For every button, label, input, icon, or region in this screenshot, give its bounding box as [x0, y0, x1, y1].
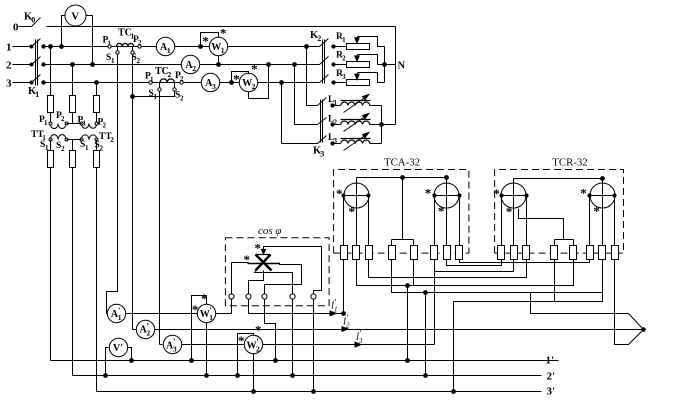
terminal 3 of cos phi [262, 294, 267, 299]
label P2 of TC2 [175, 71, 184, 83]
node 1 (phase 1 label) [6, 41, 12, 53]
switch K3 pole 1 [307, 98, 335, 108]
wire V right lead [86, 16, 95, 67]
label L3 [328, 133, 337, 145]
label L2 [328, 114, 337, 126]
wire I3 riser to TCR-R2 [435, 260, 514, 272]
cos phi box [225, 238, 329, 306]
resistor TCA-R3 [366, 246, 373, 260]
switch K1 pole 1 [13, 39, 46, 49]
svg-text:2': 2' [547, 371, 556, 383]
svg-text:*: * [201, 291, 208, 306]
svg-text:cos φ: cos φ [258, 225, 282, 237]
svg-text:2: 2 [61, 115, 65, 123]
svg-text:1: 1 [118, 313, 122, 322]
wire W1p to line 2-prime [205, 323, 209, 378]
current transformer TC2 [149, 79, 183, 91]
wattmeter W1 polarity stars [202, 25, 226, 48]
transformer TT2 primary [80, 122, 98, 128]
svg-text:2: 2 [168, 70, 172, 79]
switch K3 linkage [321, 100, 323, 143]
svg-text:1: 1 [111, 57, 115, 65]
wire PF left to terminal 1 [232, 263, 249, 295]
TCR element 1 stars [493, 186, 512, 219]
wire TCA top bus [357, 176, 449, 184]
svg-text:*: * [493, 186, 500, 201]
svg-text:*: * [192, 302, 199, 317]
wire line 2-prime feed [424, 293, 428, 378]
switch K2 pole 1 [320, 39, 336, 49]
ammeter A3-prime [163, 335, 181, 353]
wire line 3-prime [97, 391, 542, 393]
svg-text:*: * [336, 186, 343, 201]
svg-text:2: 2 [146, 329, 150, 338]
wire inductor common bus [380, 106, 396, 144]
node 2 (phase 2 label) [6, 60, 12, 72]
terminal 1 of cos phi [229, 294, 234, 299]
wire TCA-R2 to TCR-R5 [357, 260, 574, 288]
TCR element 2 stars [580, 185, 600, 218]
wattmeter W1 [209, 37, 227, 55]
label P1 of TC2 [145, 72, 154, 84]
terminal 4 of cos phi [290, 294, 295, 299]
label P2 of TC1 [133, 35, 142, 47]
resistor TCR-R7 [599, 246, 606, 260]
svg-text:1: 1 [221, 46, 225, 55]
svg-text:*: * [244, 252, 251, 267]
wire TCA-R1 to line I1 [342, 260, 346, 316]
svg-text:2: 2 [256, 344, 260, 353]
terminal 2 of cos phi [246, 294, 251, 299]
node 3 (phase 3 label) [6, 78, 12, 90]
svg-text:V: V [71, 10, 79, 22]
wire line 2-prime [73, 375, 542, 377]
label P2 of TT1 [56, 111, 65, 123]
phase meter PF crossed coils [248, 255, 280, 271]
svg-text:W: W [200, 309, 210, 320]
svg-text:TCA-32: TCA-32 [384, 157, 420, 169]
voltmeter V [65, 5, 86, 26]
svg-text:*: * [506, 204, 513, 219]
wire terminal 4 to line 2-prime [291, 300, 295, 378]
label S1 of TT2 [80, 140, 89, 152]
switch K2 label [310, 30, 321, 43]
wire V left lead [60, 16, 65, 49]
svg-text:3: 3 [342, 73, 346, 81]
resistor TCR-R8 [612, 246, 619, 260]
switch K3 pole 3 [282, 136, 335, 146]
svg-text:*: * [255, 240, 262, 255]
fuse F3 (line 3 to TT2 P2) [94, 81, 100, 124]
switch K3 label [313, 146, 324, 159]
svg-text:2: 2 [180, 75, 184, 83]
TCR-32 box [495, 170, 624, 254]
resistor TCR-R5 [570, 246, 577, 260]
wire TCA-R3 to TCR-R3 [369, 260, 527, 278]
label S2 of TC1 [132, 53, 141, 65]
TCA-32 label [384, 157, 420, 169]
wire terminal 5 to line 3-prime [312, 300, 316, 394]
TCA element 2 stars [425, 185, 445, 218]
svg-text:1: 1 [44, 119, 48, 127]
label 1-prime [546, 354, 555, 366]
wire line 3 [44, 82, 320, 84]
switch K2 pole 2 [320, 57, 336, 67]
transformer TT1 primary [49, 122, 68, 129]
switch K1 pole 3 [13, 75, 46, 85]
resistor TCR-R4 [551, 246, 558, 260]
svg-text:*: * [438, 203, 445, 218]
wire TCR centre bracket [519, 209, 574, 246]
rheostat R2 [334, 55, 385, 68]
svg-text:*: * [593, 203, 600, 218]
svg-text:N: N [398, 60, 406, 71]
svg-text:*: * [348, 204, 355, 219]
inductor L1 [333, 93, 382, 113]
wire TC2-S1 down to A3p [160, 92, 163, 345]
switch K0 [19, 18, 41, 27]
wire Vp left lead [104, 348, 109, 378]
fuse F2 (line 2 to TT junction) [70, 63, 76, 124]
svg-text:0: 0 [13, 22, 19, 34]
resistor TCA-R5 [411, 246, 418, 260]
label P2 of TT2 [98, 118, 107, 130]
svg-text:1: 1 [35, 90, 39, 99]
wattmeter W1-prime voltage loop [190, 296, 207, 363]
wire terminal 3 to line 1-prime [265, 300, 278, 363]
label S1 of TT1 [40, 140, 49, 152]
wire secondary phase a down [50, 140, 52, 361]
wire W1p out to terminal 1 [216, 300, 232, 314]
wire TCA-R6 to line I3 [434, 260, 436, 345]
label TC1 [118, 28, 135, 41]
svg-text:*: * [255, 323, 262, 338]
wire W2 to line 2 [249, 63, 271, 99]
ammeter A1-prime [107, 304, 125, 322]
svg-text:TCR-32: TCR-32 [552, 157, 587, 169]
wire TC2-S2 return [133, 92, 175, 97]
label current I2-prime [342, 313, 350, 331]
resistor TCA-R7 [444, 246, 451, 260]
svg-text:*: * [202, 34, 209, 49]
label 2-prime [547, 371, 556, 383]
TCR meter element 2 [588, 183, 616, 246]
svg-text:2: 2 [180, 95, 184, 103]
svg-text:1: 1 [83, 120, 87, 128]
ammeter A1 [156, 37, 174, 55]
resistor TCA-R2 [353, 246, 360, 260]
wire TCA centre bracket [392, 178, 414, 246]
wire line 0 [47, 26, 396, 28]
svg-text:3: 3 [173, 344, 177, 353]
TCA element 1 stars [336, 186, 355, 219]
label P1 of TT1 [39, 115, 48, 127]
wire rheostat common bus [383, 47, 396, 83]
svg-text:*: * [233, 72, 240, 87]
ammeter A2-prime [136, 320, 154, 338]
resistor TCA-R8 [456, 246, 463, 260]
label R3 [336, 69, 346, 81]
fuse F4 (TT1 S1) [48, 151, 54, 168]
label S2 of TT2 [95, 141, 104, 153]
svg-text:2: 2 [110, 136, 114, 144]
wire TC1-S1 to A1p [107, 55, 118, 314]
wire W2p to line 3-prime [252, 354, 256, 394]
switch K1 pole 2 [13, 57, 46, 67]
wire TC1-S2 down to A2p [131, 55, 137, 330]
resistor TCR-R1 [498, 246, 505, 260]
wire terminal 2 to line I1 [249, 300, 344, 314]
svg-text:1': 1' [546, 354, 555, 366]
svg-text:3': 3' [547, 385, 556, 397]
TCA-32 box [334, 170, 469, 254]
svg-text:3: 3 [6, 78, 12, 90]
wire secondary phase c down [96, 140, 98, 392]
switch K2 linkage [323, 40, 325, 84]
label S2 of TC2 [175, 91, 184, 103]
fuse F1 (line 1 to TT1 P1) [48, 45, 54, 124]
svg-text:2: 2 [317, 34, 321, 43]
inductor L3 [333, 131, 382, 151]
voltmeter V-prime [109, 338, 127, 356]
wire line 1-prime feed [406, 286, 410, 363]
svg-text:1: 1 [334, 306, 338, 314]
label L1 [328, 95, 337, 107]
svg-text:*: * [580, 185, 587, 200]
wire PF aux to terminal 4 [255, 270, 293, 295]
label S1 of TC1 [106, 53, 115, 65]
switch K0 label [24, 12, 35, 25]
svg-text:2: 2 [342, 55, 346, 63]
fuse F6 (TT2 S2) [94, 151, 100, 168]
svg-text:1: 1 [167, 46, 171, 55]
wire PF bottom to terminal 2 [249, 271, 264, 295]
svg-text:2: 2 [103, 122, 107, 130]
svg-text:2: 2 [100, 145, 104, 153]
label R2 [336, 51, 346, 63]
wire line 1-prime [51, 360, 559, 362]
wire Vp right lead [128, 348, 134, 363]
TCA meter element 1 [342, 183, 370, 246]
wire PF top to terminal 5 [261, 247, 321, 295]
wire line 1 [44, 46, 320, 48]
svg-text:W: W [242, 78, 252, 89]
wire TCA-R4 to TCR-R7 [392, 260, 603, 295]
label 3-prime [547, 385, 556, 397]
wattmeter W2 voltage loop [230, 72, 249, 85]
label current I3-prime [355, 329, 363, 347]
fuse F5 (TT secondary common) [70, 151, 76, 168]
rheostat R3 [334, 73, 385, 86]
wire TT1-P2 to TT2-P1 [67, 123, 82, 125]
label cos phi [258, 225, 282, 237]
svg-text:2: 2 [333, 118, 337, 126]
rheostat R1 [334, 37, 385, 50]
transformer TT2 secondary [80, 135, 98, 141]
wire line3 tap to K3 [280, 81, 284, 144]
label current I1-prime [330, 297, 338, 316]
wattmeter W2 [239, 73, 257, 91]
resistor TCA-R1 [341, 246, 348, 260]
ammeter A2 [181, 55, 199, 73]
svg-text:1: 1 [108, 40, 112, 48]
svg-text:2: 2 [192, 64, 196, 73]
svg-text:3: 3 [320, 150, 324, 159]
svg-text:1: 1 [6, 41, 12, 53]
wire W1 to line 2 [217, 56, 221, 67]
wire line 2 [44, 64, 320, 66]
terminal 5 of cos phi [311, 294, 316, 299]
wire A2p line I2 [155, 328, 646, 332]
wire secondary phase b down [72, 168, 74, 376]
wire line2 tap to K3 [293, 63, 297, 125]
TCR-32 label [552, 157, 587, 169]
wattmeter W1-prime stars [192, 291, 208, 317]
svg-text:2: 2 [61, 145, 65, 153]
svg-text:*: * [220, 25, 227, 40]
svg-text:1: 1 [342, 36, 346, 44]
transformer TT1 secondary [49, 135, 68, 141]
svg-text:*: * [251, 62, 258, 77]
wire bus arrow top feed [530, 293, 532, 314]
TCA meter element 2 [433, 183, 461, 246]
wire A3p-W2p current line I3 [182, 344, 435, 346]
label TT1 [31, 130, 46, 142]
bus arrow bottom edge [615, 260, 644, 345]
wattmeter W2-prime voltage loop [236, 334, 254, 378]
wattmeter W2-prime [244, 335, 262, 353]
inductor L2 [333, 112, 382, 132]
resistor TCA-R4 [389, 246, 396, 260]
wattmeter W2 polarity stars [233, 62, 258, 87]
wire TCA-R8 to TCR-R6 [460, 260, 590, 263]
label TT2 [99, 132, 114, 144]
label P1 of TC1 [103, 36, 112, 48]
svg-text:3: 3 [212, 82, 216, 91]
svg-text:1: 1 [209, 313, 213, 322]
svg-text:1: 1 [150, 76, 154, 84]
label S2 of TT1 [56, 141, 65, 153]
resistor TCA-R6 [431, 246, 438, 260]
wire TCA-R7 to TCR-R1 [447, 260, 502, 266]
svg-text:2: 2 [138, 39, 142, 47]
wire PF right to terminal 3 [265, 263, 302, 295]
wire A1p-W1p current line I1 [127, 313, 198, 315]
wire TT1-S2 to TT2-S1 [67, 140, 82, 151]
label S1 of TC2 [149, 89, 158, 101]
svg-text:W: W [211, 42, 221, 53]
current transformer TC1 [108, 43, 141, 54]
phase meter stars [244, 240, 261, 267]
wire neutral N bus [395, 27, 397, 125]
svg-text:W: W [247, 340, 257, 351]
svg-text:2: 2 [6, 60, 12, 72]
resistor TCR-R3 [523, 246, 530, 260]
ammeter A3 [201, 73, 219, 91]
label P1 of TT2 [78, 116, 87, 128]
svg-text:2: 2 [137, 57, 141, 65]
wattmeter W1-prime [197, 304, 215, 322]
wattmeter W1 voltage loop [199, 33, 219, 49]
svg-text:2: 2 [252, 82, 256, 91]
wattmeter W2-prime stars [238, 323, 262, 348]
switch K3 pole 2 [295, 118, 335, 127]
wire line1 tap to K3 [305, 45, 309, 106]
wire line 3-prime feed to TCR-R7 [452, 260, 603, 394]
svg-text:*: * [425, 185, 432, 200]
svg-text:1: 1 [85, 144, 89, 152]
resistor TCR-R2 [511, 246, 518, 260]
switch K2 pole 3 [320, 75, 336, 85]
svg-text:V': V' [113, 343, 123, 354]
wire TCA-R5 joins [413, 260, 415, 286]
label TC2 [155, 66, 172, 79]
node N [398, 60, 406, 71]
switch K1 label [28, 86, 39, 99]
node 0 (supply line 0 label) [13, 22, 19, 34]
switch K1 linkage [36, 40, 38, 86]
wire TCR top bus [514, 177, 605, 184]
bus arrow top edge [531, 314, 644, 330]
svg-text:*: * [238, 333, 245, 348]
label R1 [336, 32, 346, 44]
svg-text:2: 2 [346, 321, 350, 329]
resistor TCR-R6 [587, 246, 594, 260]
svg-text:3: 3 [358, 337, 363, 345]
TCR meter element 1 [500, 183, 528, 246]
